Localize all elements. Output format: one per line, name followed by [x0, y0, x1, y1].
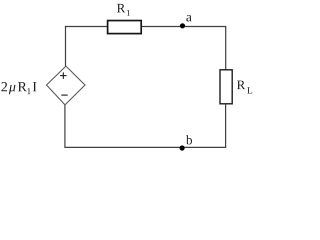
node a: [180, 23, 185, 28]
label a: [186, 15, 191, 21]
minus sign inside source: [61, 94, 67, 96]
dependent source U1 (diamond): [47, 66, 86, 105]
wire bottom rail: [65, 146, 226, 148]
wire top-right (R1 to corner, through node a): [142, 26, 226, 28]
label RL: [237, 81, 245, 90]
label b: [186, 135, 192, 144]
wire right rail lower (RL to corner b): [225, 104, 227, 148]
resistor RL: [220, 70, 232, 104]
plus sign inside source: [60, 72, 67, 79]
wire left rail upper (top corner to source): [65, 26, 67, 66]
wire top-left (from left rail to R1): [65, 26, 107, 28]
label R1: [117, 4, 125, 13]
wire right rail upper (corner to RL): [225, 26, 227, 70]
label 2uR1I (source value): [1, 82, 36, 94]
resistor R1: [108, 21, 142, 34]
wire left rail lower (source to bottom corner): [64, 105, 66, 148]
node b: [180, 145, 185, 150]
